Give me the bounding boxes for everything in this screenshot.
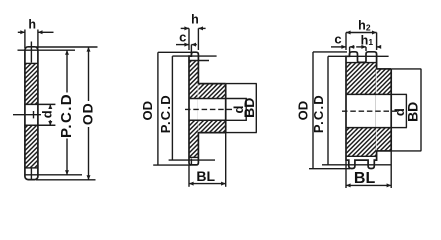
fig2 OD top extension line [158,51,194,53]
fig1 h extension line right [37,30,39,49]
svg-text:h: h [28,18,36,32]
fig2 h extension lines [188,28,190,50]
fig2 root line bottom [189,156,198,158]
fig1 tooth root line bottom [25,167,38,169]
fig2 dimension BL [189,183,226,185]
fig3 d extension lines [391,93,407,95]
svg-text:BL: BL [196,168,215,184]
svg-text:BD: BD [405,102,421,122]
fig3 hatch plate upper [347,63,376,95]
fig3 root line bottom [346,155,377,157]
svg-text:h: h [361,33,369,47]
fig2 shoulder / PCD top line [172,55,216,57]
fig1 hatch lower [26,125,38,168]
fig2 bottom tooth chamfer line [190,159,192,165]
svg-text:P.C.D: P.C.D [58,93,75,138]
svg-text:OD: OD [140,101,155,121]
fig1 bore centerline [13,114,41,116]
fig3 hub interior cover [376,70,391,151]
fig1 dimension OD [88,47,90,101]
fig2 bore top edge [189,98,226,100]
fig2 bore bottom edge [189,119,226,121]
fig2 hub interior cover [198,84,225,132]
fig2 hub top edge [198,83,225,85]
fig2 hub right face [225,84,227,133]
fig1 tooth centerline top [30,42,32,63]
fig3 shoulder / PCD top line [328,55,389,57]
fig2 bore dashed centerline [185,108,232,110]
fig3 dimension BL [346,184,391,186]
fig2 BL extension lines [188,165,190,187]
fig3 plate outline with duplex teeth [346,52,377,169]
fig1 bore top edge + d ext [25,103,56,105]
fig3 hatch plate lower [347,128,376,157]
svg-text:h: h [191,13,199,27]
fig3 dimension c [331,46,346,48]
fig3 dimension d [405,94,407,127]
svg-text:P.C.D: P.C.D [158,94,173,133]
fig1 dimension d [49,104,51,108]
svg-text:BD: BD [241,98,257,118]
fig1 PCD bottom extension line [25,174,82,176]
svg-text:1: 1 [368,37,373,47]
svg-text:BL: BL [354,170,376,187]
fig3 OD bottom extension line [309,168,350,170]
fig3 dimension OD [312,52,314,169]
fig3 bore bottom edge [346,127,391,129]
fig1 OD top extension line [36,46,98,48]
fig3 bore top edge [346,93,391,95]
fig2 root line top [189,60,209,62]
fig3 chamfer line c [349,47,351,56]
fig3 dimension BD [420,69,422,151]
fig2 dimension BD [255,84,257,133]
svg-text:d: d [39,110,54,118]
fig3 OD top extension line [313,51,347,53]
svg-text:OD: OD [296,101,311,121]
fig2 dimension P.C.D [171,56,173,160]
fig3 hub right face [390,69,392,151]
fig1 OD bottom extension line [36,179,96,181]
fig1 dimension P.C.D [66,50,68,92]
fig1 bore bottom edge + d ext [25,124,56,126]
fig1 tooth root line top [25,62,38,64]
fig3 dimension P.C.D [327,56,329,165]
fig3 root line top [346,62,377,64]
fig2 d extension lines [226,98,247,100]
fig3 dimension h1 [356,46,366,48]
svg-text:P.C.D: P.C.D [311,94,326,133]
fig1 plate outline with teeth [25,47,38,180]
fig3 BD extension lines [391,68,421,70]
fig3 BL extension lines [345,161,347,188]
fig2 hatch plate upper [190,61,198,99]
fig2 hatch plate lower [190,120,198,157]
svg-text:c: c [179,30,186,45]
fig3 h1 extension line [365,47,367,51]
fig1 h extension line left [24,30,26,49]
fig3 hatch hub lower wall [377,128,392,151]
fig2 plate outline with tooth [189,52,198,165]
fig2 OD bottom extension line [153,164,191,166]
fig3 hatch hub upper wall [377,70,392,95]
fig3 PCD bottom extension line [322,164,391,166]
svg-text:2: 2 [366,22,371,32]
fig3 h2 extension lines [345,33,347,51]
svg-text:c: c [334,31,341,46]
fig2 hatch hub lower wall [198,120,225,132]
fig2 BD extension lines [226,83,257,85]
fig1 tooth centerline bottom [30,168,32,179]
svg-text:h: h [358,19,366,33]
fig2 dimension c [176,44,189,46]
fig2 dimension d [245,99,247,121]
fig2 hub bottom edge [198,132,225,134]
fig2 dimension h [181,27,189,29]
fig2 hatch hub upper wall [198,84,225,98]
fig3 dimension h2 [346,32,377,34]
fig3 bore dashed centerline [342,110,398,112]
fig3 hub bottom edge [377,150,392,152]
fig1 hatch upper [26,63,38,104]
svg-text:OD: OD [79,102,95,125]
fig2 dimension OD [157,52,159,165]
fig1 bore center tick [33,111,35,118]
fig1 tooth shoulder / PCD top line [18,49,76,51]
fig1 dimension h [18,31,25,33]
fig2 chamfer line c [190,45,192,57]
fig2 PCD bottom extension line [169,159,215,161]
fig3 hub top edge [377,68,392,70]
